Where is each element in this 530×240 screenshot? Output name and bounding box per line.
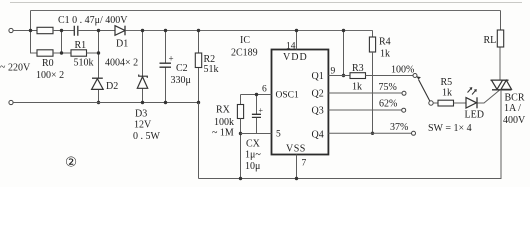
resistor R0 lower of pair <box>37 50 53 56</box>
switch SW pole <box>429 101 433 105</box>
svg-text:100× 2: 100× 2 <box>36 70 64 81</box>
wire vertical x=98.5 from VDD rail through D2 to neutral <box>98 31 100 103</box>
junction at (98.5,30.5) <box>97 29 100 32</box>
svg-text:D2: D2 <box>106 81 118 92</box>
resistor RX <box>237 95 243 179</box>
svg-text:10μ: 10μ <box>245 161 260 172</box>
junction at (61.5,53) <box>60 51 63 54</box>
pin 7 wire VSS <box>296 155 298 179</box>
diode D2 <box>92 78 104 89</box>
LED <box>466 87 477 108</box>
svg-text:CX: CX <box>246 139 261 150</box>
svg-text:Q3: Q3 <box>312 106 324 117</box>
pin 14 wire VDD <box>296 31 298 50</box>
resistor R2 <box>195 31 201 103</box>
junction at (198.5,30.5) <box>197 29 200 32</box>
junction at (30,30.5) <box>29 29 32 32</box>
zener diode D3 <box>137 75 147 89</box>
switch SW contact 100% <box>413 74 417 78</box>
switch SW contact 37% <box>412 131 416 135</box>
capacitor C1 <box>74 26 78 36</box>
wire VDD to R3 node vertical x=343 <box>343 31 345 76</box>
svg-text:R0: R0 <box>42 58 54 69</box>
svg-text:7: 7 <box>302 159 307 169</box>
wire C1 to D1 <box>78 30 115 32</box>
switch SW contact 62% <box>402 108 406 112</box>
junction at (165.5,103) <box>164 101 167 104</box>
junction at (98.5,103) <box>97 101 100 104</box>
pin 9 wire Q1 row <box>328 75 350 77</box>
svg-text:VDD: VDD <box>283 52 308 63</box>
junction at (142.8,30.5) <box>141 29 144 32</box>
svg-text:330μ: 330μ <box>171 75 191 86</box>
svg-text:C1 0 . 47μ/ 400V: C1 0 . 47μ/ 400V <box>58 15 128 26</box>
svg-text:0 . 5W: 0 . 5W <box>133 131 161 142</box>
junction at (240.8,178.5) <box>239 177 242 180</box>
switch SW contact 75% <box>402 91 406 95</box>
svg-text:12V: 12V <box>134 120 152 131</box>
svg-text:SW = 1× 4: SW = 1× 4 <box>428 123 472 134</box>
junction at (240.8,133.5) <box>239 132 242 135</box>
svg-text:~: ~ <box>0 62 6 73</box>
svg-text:LED: LED <box>465 110 484 121</box>
junction at (98.5,53) <box>97 51 100 54</box>
svg-text:1k: 1k <box>352 82 362 93</box>
pin wire Q3 row <box>328 109 401 111</box>
svg-text:+: + <box>169 54 174 64</box>
svg-text:VSS: VSS <box>286 144 306 155</box>
pin 5 wire <box>241 133 272 135</box>
svg-text:OSC1: OSC1 <box>276 91 299 101</box>
wire lower branch R0 to R1 <box>53 52 71 54</box>
node L: live terminal <box>9 28 13 32</box>
svg-text:D1: D1 <box>116 39 128 50</box>
junction at (343,30.5) <box>342 29 345 32</box>
switch SW arm <box>416 76 430 101</box>
svg-text:R4: R4 <box>379 37 391 48</box>
junction at (296.5,178.5) <box>295 177 298 180</box>
wire pole to R5 <box>433 102 438 104</box>
svg-text:5: 5 <box>276 130 281 140</box>
junction at (296.5,30.5) <box>295 29 298 32</box>
svg-text:Q4: Q4 <box>312 130 324 141</box>
svg-text:BCR: BCR <box>505 93 525 104</box>
wire upper branch to C1 <box>53 30 74 32</box>
svg-text:220V: 220V <box>8 63 31 74</box>
node N: neutral terminal <box>9 100 13 104</box>
pin 6 wire OSC1 <box>241 94 272 96</box>
wire vertical x=142.8 zener branch <box>142 31 144 103</box>
svg-text:~ 1M: ~ 1M <box>212 128 234 139</box>
resistor R4 <box>369 31 375 134</box>
resistor R0 upper of pair <box>30 27 53 53</box>
svg-text:+: + <box>259 106 264 115</box>
wire R5 to LED <box>454 102 467 104</box>
junction at (372.7,133.5) <box>371 132 374 135</box>
svg-text:400V: 400V <box>503 115 526 126</box>
IC U1 2C189 <box>272 50 329 155</box>
svg-text:②: ② <box>65 155 77 170</box>
svg-text:Q2: Q2 <box>312 89 324 100</box>
svg-text:1μ~: 1μ~ <box>245 150 261 161</box>
svg-text:37%: 37% <box>390 122 408 133</box>
svg-text:1k: 1k <box>442 88 452 99</box>
svg-text:IC: IC <box>240 35 250 46</box>
wire top rail down to RL <box>500 11 502 31</box>
resistor R5 <box>438 100 454 106</box>
svg-text:1A /: 1A / <box>504 103 521 114</box>
svg-text:1k: 1k <box>380 49 390 60</box>
svg-text:75%: 75% <box>379 82 397 93</box>
pin wire Q4 row <box>328 132 411 134</box>
triac BCR <box>491 47 512 179</box>
pin wire Q2 row <box>328 92 402 94</box>
resistor RL <box>497 30 503 47</box>
svg-text:100%: 100% <box>391 65 414 76</box>
svg-text:51k: 51k <box>204 64 219 75</box>
svg-text:R3: R3 <box>352 63 364 74</box>
wire vertical x=30 top rail to lower branch <box>30 11 32 54</box>
svg-text:R5: R5 <box>441 77 453 88</box>
svg-text:2C189: 2C189 <box>231 48 258 59</box>
resistor R1 <box>71 50 87 56</box>
junction at (165.5,30.5) <box>164 29 167 32</box>
capacitor C2 <box>160 31 172 103</box>
wire top rail <box>31 10 501 12</box>
svg-text:D3: D3 <box>135 109 147 120</box>
svg-text:62%: 62% <box>379 99 397 110</box>
wire R1 to rejoin node <box>87 52 99 54</box>
wire bottom rail <box>199 178 502 180</box>
svg-text:C2: C2 <box>176 63 188 74</box>
junction at (142.8,103) <box>141 101 144 104</box>
junction at (198.5,103) <box>197 101 200 104</box>
wire LED to gate <box>478 90 501 103</box>
wire neutral rail <box>13 102 198 104</box>
wire VDD rail after D1 <box>126 30 373 32</box>
svg-text:510k: 510k <box>74 58 94 69</box>
junction at (61.5,30.5) <box>60 29 63 32</box>
wire live terminal to R0 pair <box>13 30 37 32</box>
resistor R3 <box>350 73 366 79</box>
junction at (256.4,94) <box>255 93 258 96</box>
capacitor CX <box>252 95 261 134</box>
svg-text:14: 14 <box>286 42 296 52</box>
diode D1 <box>115 26 125 36</box>
wire neutral down leg x=198.5 <box>198 103 200 179</box>
junction at (343,75.5) <box>342 74 345 77</box>
svg-text:R1: R1 <box>75 40 87 51</box>
wire R3 to 100% contact <box>366 75 414 77</box>
svg-text:RL: RL <box>484 35 497 46</box>
wire vertical x=61.5 joining branches <box>61 31 63 54</box>
svg-text:4004× 2: 4004× 2 <box>105 58 138 69</box>
svg-text:Q1: Q1 <box>312 71 324 82</box>
svg-text:100k: 100k <box>214 117 234 128</box>
svg-text:6: 6 <box>262 85 267 95</box>
svg-text:RX: RX <box>216 105 231 116</box>
